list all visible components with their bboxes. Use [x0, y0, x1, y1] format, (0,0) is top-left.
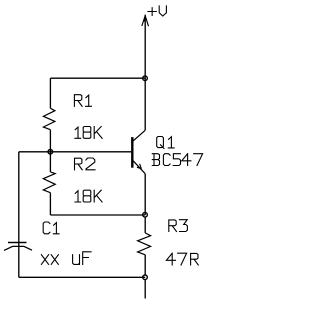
- resistor R1: [43, 108, 55, 129]
- resistor R3: [138, 233, 151, 255]
- wire: R1 bottom lead: [49, 130, 51, 152]
- node: base junction: [48, 150, 53, 155]
- wire: R2 top lead: [49, 152, 51, 172]
- label C1: [43, 222, 59, 234]
- node: emitter junction: [143, 212, 148, 217]
- label 18K (R1 value): [75, 127, 102, 139]
- transistor Q1 emitter diagonal: [133, 161, 145, 174]
- transistor Q1 emitter arrow: [137, 164, 142, 169]
- label R3: [169, 220, 188, 232]
- wire: C1 top lead: [18, 152, 20, 243]
- wire: R2-to-emitter rail: [50, 214, 145, 216]
- wire: R2 bottom lead: [49, 193, 51, 215]
- label Q1: [157, 137, 174, 149]
- wire: bottom rail: [19, 276, 145, 278]
- wire: +U stem: [144, 15, 146, 79]
- transistor Q1 base bar: [131, 137, 133, 168]
- label BC547 (Q1 part number): [152, 154, 202, 166]
- capacitor C1 curved plate: [4, 246, 32, 250]
- wire: emitter vertical: [144, 174, 146, 215]
- wire: C1 bottom lead: [18, 243, 20, 277]
- resistor R2: [43, 172, 55, 193]
- node: supply junction: [143, 76, 148, 81]
- label 47R (R3 value): [166, 253, 198, 265]
- wire: R1 top lead: [49, 78, 51, 108]
- label xx uF (C1 value): [41, 252, 91, 265]
- transistor Q1 collector diagonal: [133, 130, 145, 141]
- wire: R3 top lead: [144, 217, 146, 233]
- wire: output tail: [144, 280, 146, 299]
- label R1: [74, 95, 91, 107]
- wire: R3 bottom lead: [144, 255, 146, 275]
- wire: top rail: [50, 77, 145, 79]
- capacitor C1 top plate: [8, 242, 27, 244]
- label R2: [75, 158, 96, 170]
- label 18K (R2 value): [75, 190, 102, 202]
- node: output junction: [143, 275, 148, 280]
- label +U (supply net): [148, 6, 167, 16]
- wire: base rail: [19, 151, 131, 153]
- +U supply arrow: [142, 16, 149, 27]
- wire: collector vertical: [144, 78, 146, 130]
